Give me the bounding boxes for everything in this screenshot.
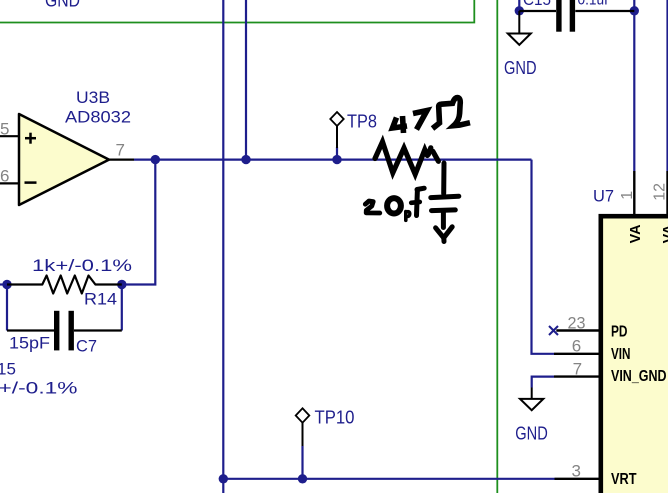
wire: down from main net to VIN pin: [532, 160, 555, 354]
wire: TP10 down to bottom net: [301, 446, 303, 479]
svg-text:7: 7: [573, 360, 582, 379]
no-connect cross on PD: [549, 326, 558, 335]
U7 pin 12 lead: [666, 171, 668, 216]
op-amp pin 7 (output): [109, 159, 134, 161]
U7 pin 3 VRT lead: [555, 478, 599, 480]
wire: feedback from output junction down to R14 right node: [122, 160, 156, 285]
annotation: handwritten resistor zigzag: [375, 142, 438, 175]
wire: VIN_GND pin to ground: [532, 377, 554, 388]
svg-text:1: 1: [619, 191, 636, 200]
junction R14 left node: [2, 280, 11, 289]
svg-text:GND: GND: [45, 0, 80, 11]
wire: R14 right node down to C7 right lead: [121, 285, 123, 331]
junction C15 right node: [630, 6, 639, 15]
ground symbol at C15: [508, 11, 531, 45]
U7 pin 1 (VA) lead: [633, 171, 635, 216]
junction main net / x=246 wire: [241, 155, 250, 164]
annotation: handwritten 47 ohm: [393, 98, 471, 133]
annotation: handwritten 20pF: [365, 188, 424, 220]
annotation: handwritten capacitor with ground: [431, 163, 459, 242]
svg-text:VRT: VRT: [611, 471, 637, 488]
svg-text:TP8: TP8: [347, 112, 377, 132]
U7 pin 6 VIN lead: [554, 353, 599, 355]
wire: TP8 to main net: [336, 147, 338, 160]
test point TP8: [330, 112, 343, 148]
junction bottom net / x=223 wire: [219, 474, 228, 483]
ground symbol at VIN_GND: [520, 388, 543, 411]
U7 pin 7 VIN_GND lead: [554, 375, 599, 377]
green vertical bus line: [496, 0, 498, 493]
junction R14 right node: [117, 280, 126, 289]
svg-text:TP10: TP10: [315, 408, 355, 428]
junction C15 left node: [515, 6, 524, 15]
svg-text:+/-0.1%: +/-0.1%: [0, 378, 78, 397]
junction at op-amp output: [151, 155, 160, 164]
wire: left stub into R14 left node: [0, 283, 7, 285]
svg-text:12: 12: [652, 183, 668, 201]
junction bottom net / TP10: [298, 474, 307, 483]
svg-text:15: 15: [0, 360, 16, 379]
wire: R14 left node down to C7 left lead: [6, 285, 8, 331]
wire: long vertical at x=223: [222, 0, 224, 493]
green box border (bottom-right corner of sheet box): [0, 0, 474, 23]
junction main net / TP8: [332, 155, 341, 164]
test point TP10: [296, 408, 310, 446]
op-amp minus marking: [25, 181, 37, 184]
svg-text:VIN: VIN: [611, 346, 631, 363]
svg-text:AD8032: AD8032: [65, 108, 131, 127]
svg-text:15pF: 15pF: [9, 334, 50, 353]
svg-text:1k+/-0.1%: 1k+/-0.1%: [32, 256, 132, 275]
svg-text:7: 7: [116, 141, 125, 160]
svg-text:U3B: U3B: [76, 88, 110, 107]
svg-text:VIN_GND: VIN_GND: [611, 368, 667, 385]
svg-text:C15: C15: [523, 0, 551, 9]
wire: C15 right node down to U7 pin 1: [633, 11, 635, 171]
svg-text:VA: VA: [627, 224, 644, 243]
wire: stub above C15 left node: [518, 0, 520, 11]
wire: main horizontal net at y=160: [134, 159, 532, 161]
svg-text:23: 23: [568, 313, 586, 332]
svg-text:PD: PD: [611, 324, 628, 341]
wire: vertical at x=246 ending at main net: [245, 0, 247, 160]
capacitor C7: [7, 311, 122, 351]
svg-text:GND: GND: [515, 424, 548, 444]
wire: bottom horizontal net to VRT: [223, 478, 554, 480]
svg-text:VA: VA: [660, 224, 668, 243]
svg-text:5: 5: [0, 120, 9, 139]
U7 pin 23 PD lead: [556, 329, 598, 331]
resistor R14: [7, 276, 122, 294]
svg-text:6: 6: [0, 167, 9, 186]
svg-text:R14: R14: [84, 290, 117, 309]
svg-text:GND: GND: [504, 58, 537, 78]
svg-text:0.1uF: 0.1uF: [578, 0, 613, 9]
op-amp U3B body: [19, 114, 109, 205]
op-amp plus marking: [25, 133, 36, 144]
wire: stub above C15 right node: [633, 0, 635, 11]
svg-text:3: 3: [572, 462, 581, 481]
op-amp pin 6 (inverting input): [0, 182, 19, 184]
wire: top edge down to U7 pin 12: [666, 0, 668, 171]
capacitor C15: [519, 0, 634, 32]
svg-text:C7: C7: [76, 337, 97, 356]
op-amp pin 5 (non-inverting input): [0, 135, 19, 137]
IC U7 body: [601, 216, 668, 493]
svg-text:6: 6: [572, 337, 581, 356]
svg-text:U7: U7: [593, 187, 614, 206]
